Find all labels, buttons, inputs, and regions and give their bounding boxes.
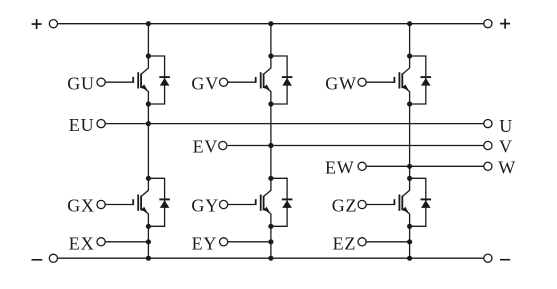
svg-text:EZ: EZ [333, 234, 357, 254]
node EZ tap [407, 239, 412, 244]
wire EU / phase U row [105, 123, 484, 125]
terminal GY [220, 200, 228, 208]
node upper collector leg V [268, 53, 273, 58]
wire leg V top rail to upper IGBT collector [270, 24, 272, 56]
svg-text:GV: GV [191, 73, 219, 93]
svg-text:EY: EY [192, 234, 218, 254]
svg-text:V: V [499, 137, 513, 157]
terminal U [484, 120, 492, 128]
node lower collector leg U [146, 176, 151, 181]
wire leg V upper emitter to lower collector [270, 104, 272, 178]
freewheel diode D2 [271, 56, 293, 104]
node phase W tap [407, 164, 412, 169]
wire leg U upper emitter to lower collector [147, 104, 149, 178]
wire EW / phase W row [366, 165, 484, 167]
terminal EV [219, 141, 227, 149]
node phase V tap [268, 143, 273, 148]
label + left [32, 19, 42, 29]
terminal EU [97, 120, 105, 128]
terminal EX [97, 238, 105, 246]
wire EZ to leg W [366, 241, 409, 243]
svg-text:EV: EV [193, 137, 219, 157]
node lower emitter leg V [268, 224, 273, 229]
IGBT Q6 (W-phase lower, gate GZ) [366, 178, 409, 226]
node upper emitter leg V [268, 101, 273, 106]
terminal GW [358, 78, 366, 86]
svg-text:U: U [499, 116, 513, 136]
svg-text:W: W [498, 158, 516, 178]
node top rail / leg U [146, 21, 151, 26]
node bottom rail / leg U [146, 256, 151, 261]
wire leg W lower emitter to bottom rail [409, 226, 411, 258]
terminal GU [97, 78, 105, 86]
terminal V [484, 141, 492, 149]
node lower emitter leg W [407, 224, 412, 229]
terminal EW [358, 162, 366, 170]
wire leg U top rail to upper IGBT collector [147, 24, 149, 56]
terminal - right [484, 254, 492, 262]
node top rail / leg W [407, 21, 412, 26]
terminal EZ [358, 238, 366, 246]
terminal + right [484, 20, 492, 28]
node EX tap [146, 239, 151, 244]
freewheel diode D3 [410, 56, 432, 104]
node top rail / leg V [268, 21, 273, 26]
IGBT Q1 (U-phase upper, gate GU) [105, 56, 148, 104]
terminal GX [97, 200, 105, 208]
freewheel diode D4 [148, 178, 170, 226]
wire leg V lower emitter to bottom rail [270, 226, 272, 258]
svg-text:GU: GU [67, 73, 95, 93]
freewheel diode D6 [410, 178, 432, 226]
wire leg W top rail to upper IGBT collector [409, 24, 411, 56]
node lower collector leg W [407, 176, 412, 181]
svg-text:EW: EW [325, 158, 355, 178]
node upper emitter leg U [146, 101, 151, 106]
node EY tap [268, 239, 273, 244]
node upper emitter leg W [407, 101, 412, 106]
freewheel diode D5 [271, 178, 293, 226]
wire top rail (P bus) [58, 23, 484, 25]
svg-text:GX: GX [67, 196, 95, 216]
label + right [500, 19, 510, 29]
terminal GZ [358, 200, 366, 208]
svg-text:EU: EU [69, 115, 95, 135]
wire bottom rail (N bus) [58, 257, 484, 259]
svg-text:GY: GY [191, 196, 219, 216]
node lower collector leg V [268, 176, 273, 181]
wire EY to leg V [228, 241, 271, 243]
node bottom rail / leg V [268, 256, 273, 261]
svg-text:EX: EX [69, 234, 95, 254]
svg-text:GZ: GZ [332, 196, 358, 216]
terminal GV [220, 78, 228, 86]
node phase U tap [146, 121, 151, 126]
IGBT Q4 (U-phase lower, gate GX) [105, 178, 148, 226]
node bottom rail / leg W [407, 256, 412, 261]
wire leg U lower emitter to bottom rail [147, 226, 149, 258]
IGBT Q2 (V-phase upper, gate GV) [228, 56, 271, 104]
terminal - left [49, 254, 57, 262]
label - left [32, 259, 43, 261]
IGBT Q5 (V-phase lower, gate GY) [228, 178, 271, 226]
freewheel diode D1 [148, 56, 170, 104]
label - right [500, 259, 510, 261]
wire leg W upper emitter to lower collector [409, 104, 411, 178]
terminal EY [220, 238, 228, 246]
terminal + left [49, 20, 57, 28]
IGBT Q3 (W-phase upper, gate GW) [366, 56, 409, 104]
node lower emitter leg U [146, 224, 151, 229]
wire EX to leg U [105, 241, 148, 243]
node upper collector leg W [407, 53, 412, 58]
terminal W [484, 162, 492, 170]
node upper collector leg U [146, 53, 151, 58]
wire EV / phase V row [228, 145, 484, 147]
svg-text:GW: GW [325, 73, 357, 93]
